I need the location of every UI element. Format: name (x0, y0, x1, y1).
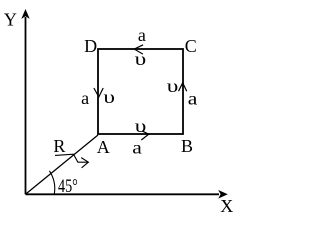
svg-text:υ: υ (167, 76, 179, 97)
svg-text:A: A (97, 137, 110, 157)
svg-text:Y: Y (4, 10, 17, 30)
svg-text:a: a (138, 25, 146, 45)
svg-text:a: a (188, 89, 198, 109)
svg-text:C: C (185, 36, 197, 56)
svg-text:a: a (132, 138, 142, 158)
svg-text:υ: υ (135, 49, 147, 70)
svg-text:45°: 45° (58, 177, 78, 197)
svg-text:υ: υ (135, 116, 147, 137)
svg-text:υ: υ (103, 87, 115, 108)
svg-text:R: R (53, 136, 65, 156)
svg-text:D: D (84, 36, 97, 56)
svg-text:X: X (220, 196, 233, 216)
svg-text:a: a (81, 88, 89, 108)
svg-text:B: B (181, 136, 193, 156)
